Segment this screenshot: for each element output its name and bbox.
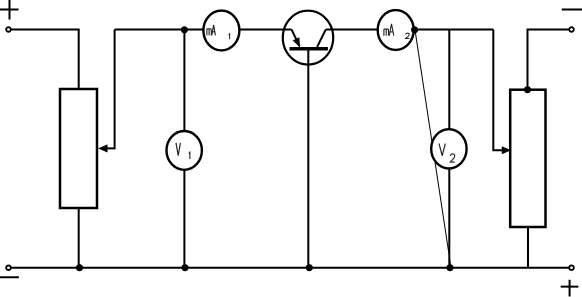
wire V1 top bbox=[183, 30, 185, 132]
transistor Q1 circle bbox=[283, 11, 333, 65]
wire bottom rail bbox=[12, 267, 569, 269]
transistor Q1 base bar bbox=[290, 47, 328, 51]
wire R2 bottom to bottom rail bbox=[527, 227, 529, 268]
wire terminal TR to R2 top bbox=[528, 30, 569, 90]
node junction mA2 right bbox=[412, 27, 418, 33]
node junction R2 top bbox=[524, 87, 530, 93]
wire R1 bottom to bottom rail bbox=[78, 208, 80, 268]
plus polarity mark top-left bbox=[0, 0, 19, 20]
plus polarity mark bottom-right bbox=[561, 280, 579, 297]
wiper arrow of R1 bbox=[99, 30, 114, 152]
resistor R1 (left potentiometer body) bbox=[60, 89, 97, 208]
node junction R1/bottom rail bbox=[76, 265, 82, 271]
minus polarity mark top-right bbox=[562, 9, 582, 11]
terminal bottom-left bbox=[6, 265, 11, 270]
ammeter mA2 bbox=[378, 10, 414, 50]
node junction V1/bottom rail bbox=[182, 265, 188, 271]
node junction V2/bottom rail bbox=[447, 265, 453, 271]
terminal bottom-right bbox=[569, 265, 574, 270]
ammeter mA1 bbox=[203, 11, 239, 51]
wiper arrow of R2 bbox=[493, 30, 510, 154]
wire terminal TL to R1 top bbox=[12, 30, 79, 90]
voltmeter V2 bbox=[431, 129, 466, 168]
wire top rail right segment bbox=[414, 29, 494, 31]
resistor R2 (right potentiometer body) bbox=[510, 90, 545, 227]
wire transistor base lead to bottom rail bbox=[307, 50, 309, 268]
wire mA1 to transistor bbox=[239, 29, 291, 31]
wire V1 bottom bbox=[183, 170, 185, 268]
terminal top-right bbox=[569, 27, 574, 32]
wire transistor to mA2 bbox=[326, 29, 378, 31]
transistor Q1 emitter with arrow bbox=[292, 29, 300, 46]
node junction base/bottom rail bbox=[306, 265, 312, 271]
node junction rail/V1 bbox=[181, 27, 187, 33]
wire top rail left segment bbox=[115, 29, 204, 31]
voltmeter V1 bbox=[167, 131, 202, 170]
thin leader line mA2 to bottom node bbox=[415, 30, 451, 268]
terminal top-left bbox=[6, 27, 11, 32]
minus polarity mark bottom-left bbox=[0, 276, 19, 278]
transistor Q1 collector bbox=[317, 29, 326, 47]
wire V2 bottom bbox=[448, 168, 450, 267]
wire V2 top bbox=[448, 30, 450, 130]
